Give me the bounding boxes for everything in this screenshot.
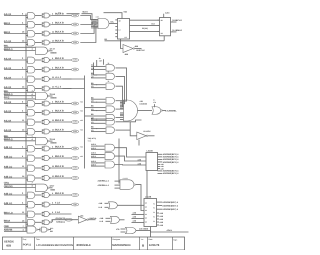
node input CHQ [4,182,36,185]
nand-buffer B13 [42,146,51,151]
svg-text:8000/L9L4: 8000/L9L4 [77,243,91,247]
node inputs Y2 [91,152,105,159]
wire A19 out [35,213,42,215]
and-gate A9 [28,101,35,107]
svg-text:(1 BBCLO: (1 BBCLO [172,19,182,22]
wire B9 out pin 4 [51,101,71,104]
wire to title [150,231,152,238]
wire A13 out [35,148,42,150]
wire U20 input stubs [120,101,124,119]
wire net drop to V1 [96,60,98,66]
net tag row18 [71,203,78,206]
and-gate A19 [28,211,35,217]
node input BBB/LQ [4,93,36,96]
node label TW LMTD [88,137,97,143]
wire bus stub to W3 [85,115,92,117]
wire V out to U20 [116,86,124,106]
nand-buffer B20 [42,220,51,225]
svg-text:B14: B14 [152,23,155,26]
or-gate X2 [106,127,115,133]
wire W2 out [116,108,124,110]
wire W1 out [116,100,124,102]
node input A4B LQ row17 [4,192,27,195]
node label +LL [58,12,62,15]
and-gate A14 [28,155,35,161]
and-gate A1 [28,13,35,19]
node input A4LQ4 row11 [4,119,27,122]
wire output BBCLO [171,19,183,22]
wire U31 out 0 [157,201,179,204]
node input A7LQ4 row4 [4,40,27,43]
node input A4LQ4 row5 [4,57,27,60]
svg-text:ADDRBE(BEY) 4: ADDRBE(BEY) 4 [163,172,180,175]
wire to buffer vertical [130,122,137,136]
wire row8 to bus [63,88,85,90]
net tag row4 [71,41,78,44]
wire B5 out pin 4 [51,57,71,60]
node input A4B LQ row13 [4,146,27,149]
node input A/LQ [4,96,36,99]
node net number [80,101,83,104]
and-gate A6 [28,67,35,73]
wire ADAL [151,227,189,233]
node label +LL 4 row7 [55,76,62,79]
svg-text:45B: 45B [6,244,11,248]
wire B12 out pin 13 [51,129,71,132]
svg-text:ADDRBE(BEY) 4: ADDRBE(BEY) 4 [163,156,180,159]
svg-text:BUFCLK: BUFCLK [137,49,146,52]
svg-text:ADDRBE(BEY) 4: ADDRBE(BEY) 4 [163,158,180,161]
and-gate A16 [28,175,35,181]
node inputs W3 [91,113,106,119]
node input A4B LQ row15 [4,165,27,168]
wire A17 out [35,194,42,196]
node input BBB/LQ [4,138,36,141]
or-gate Y2 [105,153,115,160]
svg-text:POP11: POP11 [23,244,32,247]
wire bus stub to W2 [85,107,92,109]
svg-text:4 LB: 4 LB [51,93,56,96]
node label BULK B row2 [55,22,64,25]
and-gate A7 [28,76,35,82]
svg-text:05(A4): 05(A4) [142,27,148,30]
nand-buffer B8 [42,86,51,91]
node net number [80,119,83,122]
svg-text:ADDRBE(BEY) 4: ADDRBE(BEY) 4 [163,153,180,156]
net tag row1 [71,14,78,17]
node label row20 [0,0,2,2]
wire U11 clk top [104,10,128,18]
or-gate U21 [152,107,163,115]
wire bus tap row18 [26,205,28,207]
wire bus tap row7 [26,80,28,82]
wire output ABMLO [171,29,183,32]
nand-gate W5 [27,226,38,233]
svg-text:+06: +06 [80,129,83,132]
node input A4B LQ row16 [4,175,27,178]
svg-text:ADDRBLL 4: ADDRBLL 4 [98,180,110,183]
net tag row13 [71,147,78,150]
node input A4LQ4 row12 [4,129,27,132]
wire Z2 out [118,204,145,206]
nand-buffer B5 [42,58,51,63]
wire U30 short outs [158,163,165,170]
svg-text:B LBCK: B LBCK [144,130,152,133]
node label 4 LA row19 [55,211,60,214]
node inputs W1 [91,96,106,102]
wire A16 out [35,177,42,179]
svg-text:ADDRBE(BEY) 4: ADDRBE(BEY) 4 [162,204,179,207]
wire B4 out pin 13 [51,40,71,43]
nand-buffer B7 [42,77,51,82]
nand-buffer B9 [42,101,51,106]
node input CBQ/1Q [4,185,36,188]
nand-buffer B17 [42,193,51,198]
svg-text:BBBB: BBBB [51,51,58,54]
wire Z1 out [136,185,144,211]
buffer U13 [123,45,135,53]
wire B19 out pin 4 [51,211,71,214]
wire bus tap row2 [26,25,28,27]
wire vertical bus net BSEL [25,14,27,232]
wire bus tap row19 [26,215,28,217]
wire net stub [67,13,80,15]
svg-text:1 M: 1 M [99,60,102,63]
svg-text:4 LA: 4 LA [55,211,60,214]
svg-text:BULK B: BULK B [55,40,64,43]
svg-text:A 4T: A 4T [51,48,56,51]
node input A4LQ4 row1 [4,13,27,16]
node inputs V2 [91,72,106,78]
wire V2 pin [108,70,110,73]
wire Y2 to U30 [115,156,147,161]
nand-buffer B15 [42,166,51,171]
wire U30 outputs [158,153,180,164]
and-gate A18 [28,202,35,208]
svg-text:BULK B: BULK B [55,129,64,132]
flip-flop U12 LS74 [158,18,171,36]
wire A8 out [35,88,42,90]
svg-text:XEROX: XEROX [4,239,14,243]
wire A3 out [35,33,42,35]
nand-buffer B10 [42,110,51,115]
node label BULK B row9 [55,101,64,104]
wire B10 out pin 4 [51,110,71,113]
wire U22 out [144,130,155,136]
svg-text:LS13B: LS13B [147,150,154,153]
node label 4 LA row18 [55,202,60,205]
svg-text:4LB4: 4LB4 [165,12,169,15]
node input A4LQ4 row6 [4,67,27,70]
node label BULK B row13 [55,146,64,149]
svg-text:BULK B: BULK B [55,146,64,149]
nand-buffer W5b [40,227,49,232]
net tag row12 [71,130,78,133]
svg-text:BBB: BBB [51,188,56,191]
and-gate A5 [28,57,35,63]
svg-text:4 4 1: 4 4 1 [96,15,100,18]
wire Y3 to U30 [115,164,147,167]
nand-gate W3 [36,137,50,145]
svg-text:+LL 4: +LL 4 [55,86,62,89]
or-gate V1 [106,65,115,71]
svg-text:4 LB: 4 LB [51,138,56,141]
wire W5b out [49,227,55,233]
wire A18 out [35,204,42,206]
net tag row5 [71,59,78,62]
svg-text:11: 11 [108,62,110,65]
nand-gate W1 [36,47,50,55]
svg-text:A4B: A4B [99,202,103,205]
node label BULK B row14 [55,155,64,158]
wire bus tap row15 [26,169,28,171]
buffer U22 [137,132,148,140]
and-gate A4 [28,40,35,46]
wire bus tap row3 [26,34,28,36]
wire bus tap row5 [26,61,28,63]
wire row4 to gate U10 [80,27,96,42]
nand-buffer B18 [42,202,51,207]
wire bus tap row10 [26,113,28,115]
svg-text:BULK B: BULK B [55,192,64,195]
svg-text:A AAMMEL: A AAMMEL [165,110,177,113]
node inputs W2 [91,105,106,111]
and-gate A3 [28,31,35,37]
wire W2 out 4 LB [49,93,57,100]
wire bus tap row8 [26,89,28,91]
wire B16 out pin 13 [51,175,71,178]
node label BULK B row12 [55,129,64,132]
svg-text:L/O ADDRESS RECOGNITION: L/O ADDRESS RECOGNITION [36,244,73,247]
svg-text:Title: Title [36,238,40,241]
svg-text:ADDRBE(BEY) 4: ADDRBE(BEY) 4 [163,161,180,164]
wire B6 out pin 4 [51,67,71,70]
wire B1 input [105,36,165,41]
node label BULK B row1 [55,13,64,16]
wire A20 out [35,221,42,223]
or-gate W1 [106,98,115,104]
svg-text:BBBB: BBBB [51,97,58,100]
wire B3 out pin 11 [51,31,71,34]
wire W5 out [38,229,40,231]
svg-text:MAPKEWSKI4: MAPKEWSKI4 [112,244,131,247]
or-gate X1 [106,119,115,125]
wire B20 out pin 4 [51,220,54,223]
nand-gate W2 [36,92,50,100]
node inputs V3 [91,82,106,88]
net tag row17 [71,194,78,197]
svg-text:BULK B: BULK B [55,119,64,122]
svg-text:BULK B: BULK B [55,22,64,25]
node input BBL [4,90,36,93]
wire W3 out [116,117,124,119]
wire A15 out [35,167,42,169]
nand-gate W4 [36,184,50,192]
nand-buffer B4 [42,40,51,45]
and-gate A13 [28,146,35,152]
wire B18 out pin 4 [51,202,71,205]
svg-text:BBBB: BBBB [51,142,58,145]
svg-text:BULK B: BULK B [55,57,64,60]
wire B7 out pin 11 [51,76,71,79]
node label 4BB [80,215,84,218]
svg-text:DAB/OB: DAB/OB [140,103,148,106]
and-gate A15 [28,165,35,171]
node input A4LQ2 row9 [4,101,27,104]
or-gate Y3 [105,161,115,168]
svg-text:4 LA: 4 LA [55,202,60,205]
node label 4BB [125,53,129,56]
wire Z3 out [120,219,125,221]
and-gate A12 [28,129,35,135]
wire A5 out [35,59,42,61]
decoder U31 LS139 [144,195,157,226]
buffer Z5 [78,216,88,223]
or-gate Y1 [105,144,115,151]
svg-text:BULK B: BULK B [55,110,64,113]
wire A12 out [35,131,42,133]
wire U22 down stub [138,140,140,146]
wire A1 out [35,15,42,17]
svg-text:+06: +06 [80,119,83,122]
nand-buffer B16 [42,176,51,181]
node input BBQ4 row20 [4,220,27,223]
node input BBL [4,135,36,138]
nand-buffer B2 [42,22,51,27]
svg-text:Sign: Sign [173,238,177,241]
wire A11 out [35,121,42,123]
node label +LL 4 row8 [55,86,62,89]
wire U10 out [109,21,118,24]
or-gate V2 [106,73,115,79]
svg-text:Designer: Designer [113,238,121,241]
node input BBL [4,45,36,48]
wire A14 out [35,157,42,159]
nand-buffer B12 [42,129,51,134]
wire V1 pin [108,62,110,65]
node net number [80,129,83,132]
decoder U30 LS138 [146,150,158,171]
wire B13 out pin 4 [51,146,71,149]
node label BULK B row5 [55,57,64,60]
node input BBQ4 row3 [4,31,27,34]
node label BULK B row6 [55,67,64,70]
wire Z5 out [88,217,97,220]
wire bus tap row6 [26,70,28,72]
node input A4B LQ row14 [4,155,27,158]
title block [3,237,185,250]
svg-text:11: 11 [108,80,110,83]
or-gate V3 [106,83,115,89]
wire V out to U20 [116,76,125,103]
svg-text:ABBQ(LQ: ABBQ(LQ [56,220,65,223]
wire B14 out pin 4 [51,155,71,158]
wire U20 out [138,99,157,111]
net tag row3 [71,32,78,35]
flip-flop U11 LS175 [115,19,129,40]
node label BULK B row10 [55,110,64,113]
svg-text:BULK B: BULK B [55,175,64,178]
wire A7 out [35,78,42,80]
net tag row11 [71,121,78,124]
node input A4B LQ row18 [4,202,27,205]
wire A4 out [35,42,42,44]
wire BUFCLK [135,45,146,52]
node inputs W5 [4,225,27,232]
wire U31 short outs [157,212,164,227]
wire W4 out A1T [49,184,56,191]
svg-text:BULK B: BULK B [55,67,64,70]
or-gate W2 [106,106,115,112]
wire U30 to U31 [146,171,148,199]
node label BULK B row11 [55,119,64,122]
node label CHQWTD [55,217,73,224]
net tag row15 [71,167,78,170]
net tag row9 [71,102,78,105]
wire U31 left pins [132,212,145,223]
wire mid vertical bus [84,76,86,169]
node label BULK B row15 [55,165,64,168]
and-gate A2 [28,22,35,28]
net tag row14 [71,157,78,160]
node input BBQ4 row2 [4,22,27,25]
node net number [80,146,83,149]
node label BULK B row3 [55,31,64,34]
and-gate A10 [28,110,35,116]
wire bus tap row9 [26,104,28,106]
wire Z4 out [136,228,151,231]
wire row20 ext [52,220,78,223]
or-gate Z3 [111,216,120,223]
svg-text:L3: L3 [119,29,121,32]
node label ADDRBE b0 [158,170,180,173]
node input A4LQ4 row8 [4,86,27,89]
node inputs Y3 [91,160,105,167]
and-gate A8 [28,86,35,92]
wire long vertical net [118,139,120,184]
wire U31 out 1 [157,204,179,207]
node net number [80,110,83,113]
node label BULK B row17 [55,192,64,195]
svg-text:+06: +06 [80,155,83,158]
svg-text:(1 ABMLO: (1 ABMLO [172,29,182,32]
wire MLTA feed [82,14,93,20]
svg-text:+06: +06 [80,146,83,149]
wire X2 staircase [116,129,131,131]
wire U12 vcc [164,12,170,18]
wire A2 out [35,24,42,26]
or-gate Z4 [126,227,137,234]
nand-buffer B19 [42,212,51,217]
wire U10 inputs [91,15,99,28]
node inputs Y1 [91,143,105,150]
nand-gate U20 A/B DAB/OB [124,100,148,121]
node label 4x 1M [99,57,104,65]
svg-text:LLB: LLB [99,206,103,209]
wire row2 to gate U10 [80,22,96,24]
svg-text:11: 11 [108,70,110,73]
nand-buffer B14 [42,156,51,161]
svg-text:LS13B: LS13B [145,195,152,198]
wire B15 out pin 11 [51,165,71,168]
node inputs Z2 [99,202,109,209]
wire W1 out A 4T [49,47,57,54]
wire net drop to V2 [94,63,97,75]
nand-buffer B6 [42,67,51,72]
node inputs V1 [91,64,106,70]
wire A6 out [35,69,42,71]
wire LTA stub [154,104,156,107]
